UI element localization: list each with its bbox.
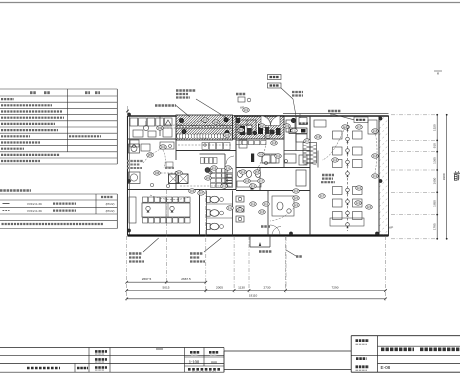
svg-text:209: 209 xyxy=(285,124,290,128)
svg-text:302: 302 xyxy=(161,145,166,149)
svg-text:910: 910 xyxy=(432,143,436,148)
svg-text:316: 316 xyxy=(333,158,338,162)
svg-text:320: 320 xyxy=(294,196,299,200)
svg-text:213: 213 xyxy=(251,184,256,188)
svg-text:mm: mm xyxy=(211,360,217,364)
svg-text:315: 315 xyxy=(316,135,321,139)
svg-text:WP: WP xyxy=(389,226,393,230)
svg-text:313: 313 xyxy=(264,202,269,206)
svg-text:1520: 1520 xyxy=(432,124,436,131)
svg-text:317: 317 xyxy=(320,194,325,198)
svg-text:321: 321 xyxy=(294,203,299,207)
svg-text:312: 312 xyxy=(251,202,256,206)
svg-text:2667.5: 2667.5 xyxy=(142,277,152,281)
svg-text:318: 318 xyxy=(373,154,378,158)
svg-text:216: 216 xyxy=(343,125,348,129)
svg-text:208: 208 xyxy=(266,134,271,138)
svg-text:315: 315 xyxy=(260,210,265,214)
svg-text:206: 206 xyxy=(239,128,244,132)
svg-text:19110: 19110 xyxy=(249,294,258,298)
svg-text:2005: 2005 xyxy=(216,285,223,289)
svg-text:(PF22): (PF22) xyxy=(106,209,115,213)
svg-text:202: 202 xyxy=(244,108,249,112)
svg-text:(PF22): (PF22) xyxy=(106,202,115,206)
svg-text:2667.5: 2667.5 xyxy=(181,277,191,281)
svg-text:212: 212 xyxy=(222,184,227,188)
svg-text:218: 218 xyxy=(373,129,378,133)
svg-text:306: 306 xyxy=(190,189,195,193)
svg-text:1785: 1785 xyxy=(432,223,436,230)
svg-text:×: × xyxy=(437,71,440,76)
svg-text:217: 217 xyxy=(259,179,264,183)
svg-text:9100: 9100 xyxy=(442,173,446,180)
svg-text:E-08: E-08 xyxy=(381,365,391,370)
svg-text:310: 310 xyxy=(276,154,281,158)
svg-text:210: 210 xyxy=(212,166,217,170)
svg-text:214: 214 xyxy=(241,170,246,174)
svg-text:5015: 5015 xyxy=(163,285,170,289)
svg-text:1650: 1650 xyxy=(432,177,436,184)
svg-text:324: 324 xyxy=(357,186,362,190)
svg-text:7290: 7290 xyxy=(332,285,339,289)
svg-text:322: 322 xyxy=(356,201,361,205)
svg-text:310: 310 xyxy=(294,189,299,193)
svg-text:323: 323 xyxy=(367,205,372,209)
svg-text:217: 217 xyxy=(305,139,310,143)
svg-text:215: 215 xyxy=(255,170,260,174)
svg-text:314: 314 xyxy=(238,208,243,212)
svg-text:217: 217 xyxy=(357,125,362,129)
svg-text:1:100: 1:100 xyxy=(189,360,200,365)
svg-text:205: 205 xyxy=(225,133,230,137)
svg-text:318: 318 xyxy=(272,141,277,145)
svg-text:WP: WP xyxy=(240,106,244,110)
svg-text:311: 311 xyxy=(228,206,233,210)
svg-text:2730: 2730 xyxy=(264,285,271,289)
svg-text:203: 203 xyxy=(203,118,208,122)
svg-text:1365: 1365 xyxy=(432,157,436,164)
svg-text:307: 307 xyxy=(199,191,204,195)
svg-text:216: 216 xyxy=(245,179,250,183)
svg-text:211: 211 xyxy=(226,166,231,170)
svg-text:VVF2.0-3C: VVF2.0-3C xyxy=(27,202,43,206)
svg-text:209: 209 xyxy=(206,176,211,180)
svg-text:211: 211 xyxy=(292,129,297,133)
svg-text:1650: 1650 xyxy=(432,200,436,207)
svg-text:VVF2.0-3C: VVF2.0-3C xyxy=(27,209,43,213)
svg-text:319: 319 xyxy=(373,174,378,178)
svg-text:1130: 1130 xyxy=(238,285,245,289)
